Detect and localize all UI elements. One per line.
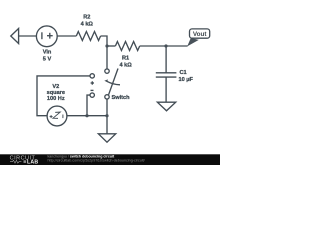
svg-text:4 kΩ: 4 kΩ xyxy=(119,63,132,69)
wire V2- drop xyxy=(87,95,90,116)
svg-text:square: square xyxy=(47,90,65,96)
node junction Vout xyxy=(164,44,167,47)
watermark text xyxy=(48,155,146,163)
wire R2 to corner down to node xyxy=(101,36,107,46)
svg-text:10 µF: 10 µF xyxy=(179,77,194,83)
switch top contact xyxy=(105,69,109,73)
resistor R1 xyxy=(115,42,139,51)
Vout flag xyxy=(187,29,210,47)
wire node to R1 xyxy=(107,45,115,47)
svg-text:5 V: 5 V xyxy=(43,56,52,62)
switch throw contact - xyxy=(90,93,94,97)
svg-text:C1: C1 xyxy=(180,70,187,76)
junction pole/V2 xyxy=(105,114,108,117)
svg-text:R1: R1 xyxy=(122,56,129,62)
wire V2+ loop (top) xyxy=(37,76,90,116)
node junction at R1 left xyxy=(105,44,108,47)
wire flag to Vin xyxy=(19,35,37,37)
wire node to flag stem xyxy=(166,45,188,47)
svg-text:4 kΩ: 4 kΩ xyxy=(81,21,94,27)
svg-text:http://circuitlab.com/c/p5s2p9: http://circuitlab.com/c/p5s2p976z/switch… xyxy=(48,158,146,162)
wire C1 to ground xyxy=(165,77,167,102)
wire node down to switch top contact xyxy=(106,46,108,69)
svg-text:Vout: Vout xyxy=(193,31,207,38)
R1 label xyxy=(119,56,132,69)
Vin label xyxy=(43,50,52,63)
capacitor C1 xyxy=(156,73,177,77)
voltage source Vin xyxy=(36,26,57,47)
svg-text:R2: R2 xyxy=(83,14,90,20)
wire V2 right xyxy=(67,115,107,117)
R2 label xyxy=(81,14,94,27)
ground (under C1) xyxy=(157,102,175,111)
junction V2- xyxy=(85,114,88,117)
C1 label xyxy=(179,70,194,83)
ground flag (left triangle) xyxy=(11,29,19,44)
switch arm xyxy=(109,69,118,95)
voltage source V2 xyxy=(47,106,67,126)
watermark bar xyxy=(0,154,220,165)
switch throw contact + xyxy=(90,74,94,78)
wire R1 to Vout node xyxy=(140,45,166,47)
plus mark xyxy=(91,81,94,84)
svg-text:100 Hz: 100 Hz xyxy=(47,96,65,102)
switch toggle arrow xyxy=(104,79,120,84)
ground (under switch) xyxy=(98,134,115,142)
switch label xyxy=(112,95,131,101)
resistor R2 xyxy=(76,32,100,41)
wire Vin to R2 xyxy=(57,35,76,37)
svg-text:LAB: LAB xyxy=(27,160,38,165)
wire pole to ground xyxy=(106,99,108,134)
svg-text:Vin: Vin xyxy=(43,50,52,56)
svg-text:Switch: Switch xyxy=(112,95,131,101)
V2 label xyxy=(47,84,65,102)
CircuitLab logo xyxy=(10,155,39,165)
minus mark xyxy=(91,89,94,91)
wire node down to C1 xyxy=(165,46,167,73)
switch pole contact xyxy=(105,95,109,99)
Vout label xyxy=(193,31,207,38)
